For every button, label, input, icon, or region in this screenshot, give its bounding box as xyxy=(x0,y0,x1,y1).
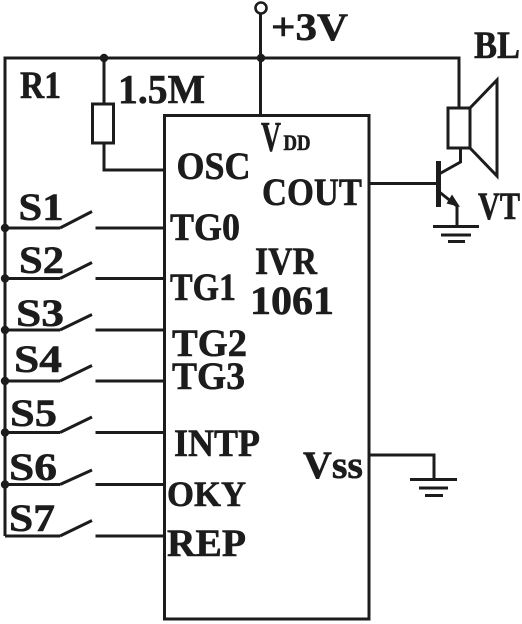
svg-text:BL: BL xyxy=(474,24,520,67)
svg-text:R1: R1 xyxy=(20,64,61,107)
svg-text:COUT: COUT xyxy=(262,171,362,214)
svg-text:Vss: Vss xyxy=(303,444,363,487)
svg-text:S1: S1 xyxy=(19,186,64,229)
svg-text:DD: DD xyxy=(284,130,311,155)
svg-text:TG0: TG0 xyxy=(170,206,240,249)
svg-text:REP: REP xyxy=(167,522,246,565)
svg-text:S4: S4 xyxy=(14,338,62,381)
svg-text:TG1: TG1 xyxy=(170,266,236,309)
svg-text:IVR: IVR xyxy=(255,240,318,283)
svg-text:V: V xyxy=(261,115,281,161)
svg-text:OSC: OSC xyxy=(177,145,251,188)
svg-text:INTP: INTP xyxy=(174,422,260,465)
svg-text:OKY: OKY xyxy=(167,474,246,514)
svg-text:1.5M: 1.5M xyxy=(118,66,205,112)
svg-text:S5: S5 xyxy=(10,392,57,435)
svg-text:+3V: +3V xyxy=(271,6,348,49)
svg-text:S7: S7 xyxy=(9,497,55,540)
svg-text:1061: 1061 xyxy=(250,278,334,323)
svg-text:S3: S3 xyxy=(16,292,64,335)
svg-text:TG3: TG3 xyxy=(172,355,245,398)
svg-text:VT: VT xyxy=(478,185,520,228)
svg-text:S2: S2 xyxy=(19,239,64,282)
svg-text:S6: S6 xyxy=(9,446,57,489)
